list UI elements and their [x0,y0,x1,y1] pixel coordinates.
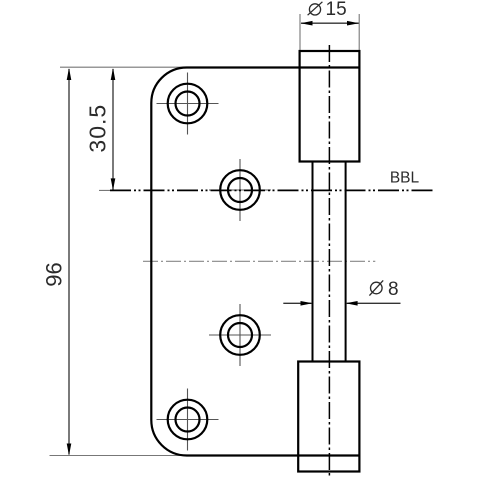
svg-text:8: 8 [388,279,399,300]
svg-text:30.5: 30.5 [85,104,111,153]
svg-text:15: 15 [326,0,347,20]
svg-text:96: 96 [42,262,67,286]
svg-text:BBL: BBL [390,170,420,187]
